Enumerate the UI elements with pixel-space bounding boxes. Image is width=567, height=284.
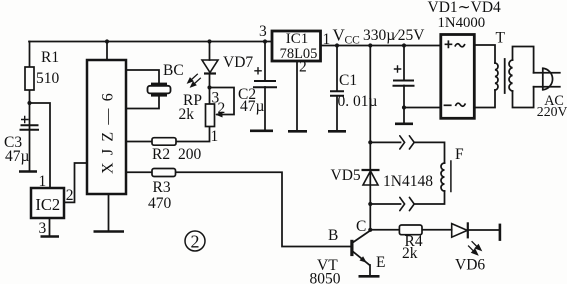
svg-text:1: 1 xyxy=(39,173,47,190)
svg-text:47µ: 47µ xyxy=(5,148,30,165)
svg-text:R3: R3 xyxy=(153,179,171,196)
svg-text:R1: R1 xyxy=(41,49,59,66)
svg-text:3: 3 xyxy=(39,220,47,237)
svg-text:R2: R2 xyxy=(152,146,170,163)
svg-text:2: 2 xyxy=(218,100,226,117)
svg-text:1N4000: 1N4000 xyxy=(438,15,486,31)
svg-text:200: 200 xyxy=(178,146,202,163)
svg-text:BC: BC xyxy=(163,62,184,79)
svg-text:330µ∕25V: 330µ∕25V xyxy=(363,27,425,44)
svg-text:8050: 8050 xyxy=(310,271,341,284)
svg-text:510: 510 xyxy=(36,70,60,87)
svg-text:2k: 2k xyxy=(179,106,195,123)
svg-text:B: B xyxy=(328,227,338,244)
svg-text:VD7: VD7 xyxy=(223,54,253,71)
svg-text:1: 1 xyxy=(323,31,331,48)
svg-text:VD1∼VD4: VD1∼VD4 xyxy=(428,0,502,16)
svg-text:IC1: IC1 xyxy=(286,31,309,47)
svg-text:C: C xyxy=(356,218,366,235)
svg-text:470: 470 xyxy=(148,195,172,212)
svg-text:T: T xyxy=(496,30,506,47)
svg-text:XJZ—6: XJZ—6 xyxy=(100,86,117,174)
svg-text:CC: CC xyxy=(345,35,361,47)
svg-text:1: 1 xyxy=(211,128,219,145)
svg-text:0. 01µ: 0. 01µ xyxy=(338,93,378,110)
svg-text:220V: 220V xyxy=(537,104,567,119)
svg-text:VD5: VD5 xyxy=(331,167,361,184)
svg-text:47µ: 47µ xyxy=(240,98,265,115)
svg-text:2: 2 xyxy=(66,187,74,204)
svg-text:2: 2 xyxy=(191,232,200,252)
svg-text:IC2: IC2 xyxy=(35,195,60,214)
svg-text:F: F xyxy=(455,146,464,163)
svg-text:C1: C1 xyxy=(339,72,357,89)
svg-text:3: 3 xyxy=(259,23,267,40)
svg-text:78L05: 78L05 xyxy=(280,46,318,62)
svg-text:VD6: VD6 xyxy=(455,257,485,274)
svg-text:1N4148: 1N4148 xyxy=(383,173,433,190)
svg-text:2k: 2k xyxy=(402,245,418,262)
svg-text:E: E xyxy=(376,254,385,271)
